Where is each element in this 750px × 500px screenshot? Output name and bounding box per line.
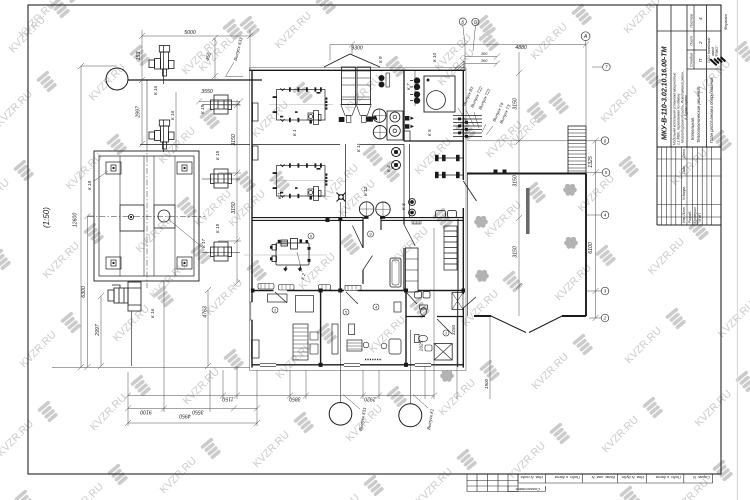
room5 chair: [363, 342, 369, 348]
bubble7 leader: [592, 66, 602, 68]
exhaust circles: [329, 403, 422, 427]
pipe to building: [128, 79, 262, 81]
pump K15 mid: [202, 169, 240, 188]
corridor partition x340: [339, 219, 341, 290]
center cell left: [120, 205, 144, 231]
svg-text:1325: 1325: [588, 156, 594, 168]
room2 wardrobe top: [268, 294, 288, 302]
svg-text:3550: 3550: [192, 408, 204, 414]
small cabinet K5: [404, 131, 410, 141]
svg-text:3150: 3150: [231, 134, 237, 146]
dim 2997 vert: [139, 77, 145, 147]
bottom wall window sills: [260, 364, 431, 367]
boiler centerlines: [269, 105, 333, 181]
bath toilet top: [420, 305, 428, 316]
bottom chain y410.5: [125, 405, 260, 411]
flowmeter circle: [106, 68, 128, 90]
corner pad TL: [106, 162, 121, 174]
radiator marks corridor: [258, 284, 361, 291]
foundation inner: [99, 156, 194, 276]
drain leader to exhaust K1: [409, 330, 411, 404]
svg-text:3550: 3550: [201, 89, 213, 95]
canopy column: [526, 188, 530, 234]
vestibule bed: [390, 258, 401, 287]
svg-text:Котельная.: Котельная.: [690, 117, 695, 140]
svg-text:2997: 2997: [136, 105, 142, 119]
stair: [568, 126, 586, 174]
gable recess over stack: [324, 54, 380, 67]
dim 4763: [205, 287, 211, 369]
pipe stub F2: [163, 120, 165, 152]
svg-text:3850: 3850: [289, 395, 301, 401]
right leaders: [467, 141, 602, 318]
svg-text:К 15: К 15: [215, 150, 220, 160]
H channels: [120, 156, 175, 276]
burner K1 upper: [308, 113, 314, 120]
right door leaf upper: [463, 181, 476, 201]
canopy bottom edges: [474, 315, 586, 317]
bath partition y316: [406, 316, 463, 318]
corner pad BR: [177, 257, 192, 269]
bottom margin table: [467, 474, 713, 492]
svg-text:Теплотехнические решения.: Теплотехнические решения.: [696, 86, 701, 143]
pumps K4: [392, 148, 401, 170]
canopy entrance vee: [491, 316, 562, 333]
svg-text:(1:50): (1:50): [42, 207, 51, 228]
corridor partition x458: [457, 219, 459, 290]
svg-text:К 16: К 16: [170, 110, 175, 120]
svg-text:Справ. N: Справ. N: [693, 475, 710, 480]
svg-text:5000: 5000: [184, 30, 196, 36]
pipe below F3: [131, 311, 133, 366]
svg-text:2025: 2025: [419, 340, 424, 352]
vypusk labels top right: [458, 85, 512, 135]
svg-text:4763: 4763: [203, 306, 209, 318]
left dim 6300: [85, 213, 95, 370]
agv unit: [252, 340, 260, 358]
svg-text:Изм Лист: Изм Лист: [682, 207, 686, 223]
dim 3150 chain: [218, 100, 241, 286]
svg-text:Проверил: Проверил: [693, 207, 697, 223]
canopy door posts: [494, 170, 498, 175]
room5 sofa hatched: [347, 340, 362, 351]
condensate tanks: [359, 202, 390, 219]
svg-text:А: А: [583, 34, 588, 40]
svg-text:Лист: Лист: [690, 36, 694, 47]
vestibule partition x363: [362, 220, 364, 284]
top right dim y44.5: [330, 42, 589, 127]
title block: [657, 5, 721, 225]
svg-text:3150: 3150: [451, 324, 456, 335]
svg-text:К 4: К 4: [386, 165, 391, 172]
corner ladder: [444, 226, 457, 270]
corner pad TR: [177, 162, 192, 174]
svg-text:Инв. N дубл.: Инв. N дубл.: [621, 475, 644, 480]
svg-text:300: 300: [481, 58, 488, 63]
pump K15 bottom: [202, 242, 240, 261]
wall junction fills: [251, 218, 465, 367]
top-right room partition: [404, 70, 463, 141]
svg-text:3150: 3150: [513, 98, 519, 110]
svg-text:3150: 3150: [231, 202, 237, 214]
K2 skid unit: [244, 239, 327, 273]
floor drain cross K12: [337, 193, 346, 202]
left dim 12600: [52, 63, 250, 370]
svg-text:1150: 1150: [222, 395, 233, 401]
bath door leaf: [437, 319, 452, 334]
svg-text:К 11: К 11: [356, 143, 361, 152]
svg-text:К 1: К 1: [292, 129, 297, 136]
economizer stack right: [356, 67, 373, 123]
svg-text:4950: 4950: [179, 412, 191, 418]
living partition x406: [405, 290, 407, 367]
room4 couch: [389, 339, 401, 354]
svg-text:План расстановки оборудования: План расстановки оборудования: [709, 77, 714, 143]
bottom chain y419.5: [125, 420, 260, 426]
svg-text:4880: 4880: [515, 45, 527, 51]
pipe line into building: [140, 144, 250, 146]
svg-text:12600: 12600: [73, 213, 79, 228]
ramp hatch triangle: [454, 61, 464, 70]
washbasins: [412, 211, 457, 225]
living top wall y290: [252, 290, 463, 292]
foundation outer: [94, 151, 199, 281]
svg-text:9300: 9300: [351, 46, 363, 52]
building right wall (double): [465, 68, 467, 371]
scan edge line: [737, 0, 739, 500]
right door leaf lower: [463, 297, 476, 308]
room5 desk: [349, 324, 355, 335]
svg-text:1: 1: [445, 331, 447, 336]
left small pumps: [379, 73, 390, 87]
svg-text:Разраб.: Разраб.: [688, 211, 692, 223]
room door leaves: [275, 292, 417, 304]
living partition x320: [320, 290, 322, 367]
room bubbles: [272, 231, 449, 336]
room4 chair: [381, 343, 387, 349]
svg-text:9100: 9100: [140, 409, 152, 415]
svg-text:1500: 1500: [484, 378, 489, 389]
svg-text:д. Бурмистрово: д. Бурмистрово: [684, 95, 688, 120]
room2 big wardrobe: [296, 296, 314, 313]
dim 300 pair: [465, 54, 500, 67]
svg-text:Б: Б: [461, 19, 464, 24]
boiler K1 upper body: [273, 87, 328, 124]
room4 desk: [394, 302, 401, 312]
svg-text:153: 153: [136, 52, 142, 61]
svg-text:Дата: Дата: [682, 149, 686, 159]
bath sinks top: [415, 292, 422, 299]
svg-text:N докум.: N докум.: [682, 186, 686, 200]
svg-text:К 1: К 1: [277, 192, 282, 199]
corner pad BL: [106, 257, 121, 269]
wc2 sink: [425, 345, 432, 351]
boiler K1 lower body: [273, 163, 328, 200]
pump box with impellers: [387, 111, 403, 140]
svg-text:К 9: К 9: [378, 56, 383, 63]
svg-text:6300: 6300: [81, 286, 87, 298]
svg-text:2997: 2997: [95, 323, 101, 337]
dim 3550: [176, 92, 243, 150]
boiler hall bottom wall y219: [252, 218, 463, 221]
svg-text:"РЗКО": "РЗКО": [715, 45, 719, 57]
top-right unit: [424, 76, 455, 112]
corridor wardrobe: [406, 248, 419, 292]
svg-text:МКУ-В-110-3.02.10.16.00-ТМ: МКУ-В-110-3.02.10.16.00-ТМ: [662, 46, 669, 140]
svg-text:Листов: Листов: [690, 14, 694, 29]
svg-text:К 10: К 10: [432, 52, 437, 62]
svg-text:3150: 3150: [513, 175, 519, 187]
svg-text:Формат: Формат: [723, 13, 728, 30]
svg-text:3150: 3150: [513, 246, 519, 258]
axis A leader: [463, 26, 586, 51]
svg-text:В: В: [474, 20, 477, 25]
wall pump column: [410, 71, 420, 106]
pump K15 top: [202, 95, 240, 114]
flanges on wall under tank: [326, 217, 330, 222]
right dim 1325/6100: [593, 138, 599, 321]
bath shower corner: [452, 293, 463, 310]
svg-text:К 15: К 15: [200, 104, 205, 114]
svg-text:Согласовано: Согласовано: [515, 487, 540, 492]
left dim 2997b: [98, 293, 104, 369]
pump circles K11: [371, 109, 387, 139]
flange fittings right: [405, 116, 414, 129]
svg-text:Подп. и дата: Подп. и дата: [554, 475, 580, 480]
building left wall (double): [248, 68, 250, 371]
svg-text:Подп. и дата: Подп. и дата: [655, 475, 681, 480]
valve assembly F1: [149, 46, 174, 77]
vestibule door leaves: [353, 226, 373, 270]
vypusk leaders: [409, 367, 411, 404]
room5 tall shelf: [332, 324, 338, 354]
svg-text:Подп.: Подп.: [682, 165, 686, 174]
canopy right edge: [585, 174, 587, 317]
valve assembly F2: [149, 120, 174, 149]
pumps K3: [409, 199, 416, 216]
dotted mat: [365, 359, 382, 361]
svg-text:6100: 6100: [588, 242, 594, 254]
svg-text:Взам. инв. N: Взам. инв. N: [592, 475, 615, 480]
corridor partition x404: [403, 218, 405, 290]
svg-text:К 7: К 7: [406, 83, 411, 90]
canopy roof top edge: [467, 173, 586, 175]
equipment labels: [87, 52, 437, 318]
svg-text:2920: 2920: [364, 395, 377, 401]
svg-text:Стадия: Стадия: [690, 53, 694, 67]
corridor door leaf: [404, 225, 415, 246]
drain leader to exhaust K31: [340, 202, 342, 402]
building top wall (double): [249, 67, 465, 69]
svg-text:К 15: К 15: [215, 223, 220, 233]
living partition x458: [457, 290, 459, 367]
boiler hall mid line: [252, 144, 404, 146]
wc2 toilet: [415, 335, 428, 343]
svg-text:К 12: К 12: [363, 186, 368, 196]
canopy dim 3150: [516, 52, 522, 316]
centerlines: [146, 145, 148, 288]
svg-text:2: 2: [698, 41, 703, 45]
left wall window sill: [250, 302, 253, 320]
wall flange row 1: [435, 155, 464, 161]
svg-text:Инв. N подл.: Инв. N подл.: [520, 475, 543, 480]
axis bubbles: [459, 18, 610, 322]
stamp logo: [709, 52, 726, 69]
living block bottom wall (double): [252, 364, 463, 366]
top dim 5000: [139, 30, 253, 80]
bottom extensions: [128, 228, 434, 426]
svg-text:300: 300: [481, 51, 488, 56]
below dims: [425, 316, 490, 399]
bushes: [440, 184, 578, 382]
svg-text:ГИП: ГИП: [698, 213, 702, 220]
valve assembly F3 (horizontal): [108, 282, 141, 311]
nightstands: [310, 332, 318, 340]
bottom chain y401: [125, 393, 437, 399]
svg-text:2: 2: [603, 316, 607, 321]
pipe stub F1: [163, 46, 165, 84]
burner K1 lower: [308, 189, 314, 196]
shaft box X: [434, 344, 452, 361]
center cell right: [154, 205, 175, 228]
svg-text:К 5: К 5: [427, 129, 432, 136]
svg-text:К 16: К 16: [150, 308, 155, 318]
dimension texts: [73, 30, 595, 431]
pipe bundle through wall: [453, 116, 482, 137]
wall flange row 2: [435, 172, 464, 178]
room2 bed hatched: [293, 324, 308, 360]
svg-text:К 16: К 16: [153, 85, 158, 95]
svg-text:К 3: К 3: [401, 203, 406, 210]
svg-text:К 18: К 18: [87, 180, 92, 190]
canopy left thin edge: [467, 174, 469, 317]
economizer stack left: [339, 67, 356, 123]
